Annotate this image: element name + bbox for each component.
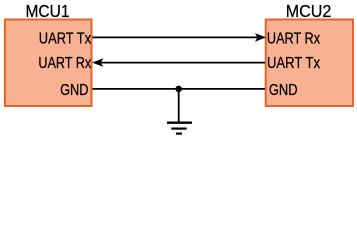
svg-text:UART Tx: UART Tx: [267, 55, 320, 72]
arrowhead into MCU2 UART Rx: [255, 33, 266, 42]
svg-text:MCU1: MCU1: [26, 1, 70, 21]
ground symbol stem: [178, 89, 180, 122]
arrowhead into MCU1 UART Rx: [92, 58, 103, 67]
ground symbol bar 1: [167, 121, 192, 123]
svg-text:UART Rx: UART Rx: [38, 55, 91, 72]
ground symbol bar 3: [176, 133, 182, 135]
svg-text:UART Rx: UART Rx: [267, 31, 320, 48]
wire GND to GND: [93, 88, 266, 90]
wire MCU1 UART Tx to MCU2 UART Rx: [93, 36, 258, 38]
wire MCU2 UART Tx to MCU1 UART Rx: [101, 62, 265, 64]
svg-text:MCU2: MCU2: [286, 1, 332, 21]
svg-text:UART Tx: UART Tx: [39, 31, 91, 48]
junction dot on GND wire: [175, 86, 182, 93]
MCU2 block: [266, 20, 353, 107]
svg-text:GND: GND: [269, 82, 298, 99]
MCU1 block: [5, 20, 92, 107]
ground symbol bar 2: [171, 128, 186, 130]
svg-text:GND: GND: [60, 82, 88, 99]
